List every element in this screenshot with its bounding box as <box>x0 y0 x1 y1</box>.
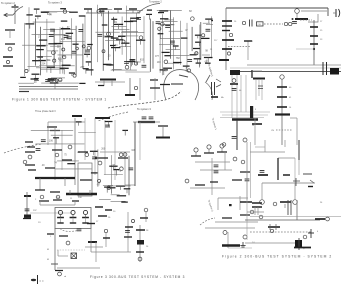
wire 113 <box>74 201 76 205</box>
wire 127 <box>57 250 59 256</box>
svg-text:Three phase fault 3: Three phase fault 3 <box>35 110 56 113</box>
svg-text:Figure 2 300-BUS TEST SYSTEM -: Figure 2 300-BUS TEST SYSTEM - SYSTEM 2 <box>222 255 332 259</box>
generator G 12 <box>223 231 227 235</box>
generator 27 <box>55 79 58 82</box>
stub wire 45 <box>78 122 80 126</box>
system boundary bubble 1 <box>164 70 199 100</box>
stub wire 32 <box>159 34 161 39</box>
svg-text:880: 880 <box>194 52 199 55</box>
generator G 7 <box>194 148 198 152</box>
wire 1 <box>14 7 16 24</box>
generator 26 <box>73 74 76 77</box>
bus bar 148 <box>191 155 201 157</box>
long feeder wire 2 <box>301 10 327 12</box>
bus bar 183 <box>219 59 229 61</box>
svg-text:267: 267 <box>80 66 85 69</box>
svg-text:173: 173 <box>137 11 142 14</box>
wire 107 <box>134 122 136 186</box>
bus bar 64 <box>130 59 136 61</box>
node dot 1 <box>14 4 16 6</box>
wire 172 <box>296 48 314 50</box>
generator 32 <box>55 153 59 157</box>
bus bar 143 <box>125 226 133 228</box>
wire 16 <box>59 27 61 74</box>
wire 97 <box>84 118 86 160</box>
bus bar 81 <box>194 58 201 60</box>
bus bar 171 <box>104 186 110 188</box>
wire 112 <box>40 204 75 206</box>
bus bar 196 <box>280 201 291 203</box>
wire 143 <box>190 187 225 189</box>
wire 6 <box>95 81 125 83</box>
long tie wire 2 <box>19 88 78 90</box>
feeder drop 2 <box>313 20 315 60</box>
generator 51 <box>243 138 247 142</box>
wire 136 <box>195 152 197 156</box>
svg-text:346: 346 <box>131 149 136 152</box>
bus bar 32 <box>39 39 47 41</box>
generator G 4 <box>58 272 62 276</box>
generator 8 <box>52 51 56 55</box>
bus bar 60 <box>111 18 117 20</box>
bus bar 50 <box>116 39 123 41</box>
generator 22 <box>187 69 190 72</box>
wire 24 <box>45 11 57 13</box>
svg-text:106: 106 <box>49 140 54 143</box>
transformer 13 <box>156 22 161 24</box>
transformer 36 <box>258 86 263 89</box>
bus bar 127 <box>57 217 64 219</box>
bus bar 59 <box>102 24 108 26</box>
wire 29 <box>28 65 40 67</box>
bus bar 93 <box>32 73 40 75</box>
wire 192 <box>278 157 295 159</box>
wire 15 <box>53 29 55 68</box>
wire 189 <box>294 158 296 183</box>
main bus 5 <box>222 244 240 246</box>
wire 152 <box>228 247 252 249</box>
wire 44 <box>121 17 123 55</box>
dashed wire 6 <box>250 231 312 233</box>
bus bar 92 <box>50 82 59 84</box>
generator 1 <box>8 47 12 51</box>
wire 12 <box>35 18 37 65</box>
bus bar 82 <box>159 10 168 12</box>
bus bar 96 <box>47 79 54 81</box>
svg-text:193: 193 <box>157 61 162 64</box>
transformer 3 <box>67 37 72 39</box>
bus bar 193 <box>308 186 313 188</box>
generator 12 <box>62 55 66 59</box>
transformer 37 <box>260 171 265 173</box>
bus bar 62 <box>147 9 152 11</box>
bus bar 34 <box>61 28 71 30</box>
bus bar 105 <box>50 130 60 132</box>
wire 131 <box>127 212 129 252</box>
wire 92 <box>48 121 85 123</box>
wire 87 <box>200 22 202 60</box>
wire 162 <box>104 174 123 176</box>
stub wire 15 <box>88 62 90 66</box>
stub wire 8 <box>29 24 31 29</box>
transformer 20 <box>142 117 147 119</box>
bus bar 126 <box>72 200 79 202</box>
wire 182 <box>254 118 256 145</box>
wire 28 <box>60 41 85 43</box>
bus bar 43 <box>60 67 69 69</box>
generator G 3 <box>83 210 87 214</box>
generator G 11 <box>241 160 245 164</box>
bus bar 53 <box>130 17 139 19</box>
bus bar 46 <box>32 60 39 62</box>
wire 151 <box>227 232 229 248</box>
wire 22 <box>90 8 92 75</box>
transformer 23 <box>77 229 82 231</box>
wire 21 <box>84 16 86 53</box>
generator 55 <box>326 217 330 221</box>
wire 168 <box>327 8 329 16</box>
wire 153 <box>78 132 96 134</box>
wire 145 <box>250 142 252 198</box>
bus bar 175 <box>310 35 318 37</box>
wire 11 <box>28 7 30 71</box>
transformer 21 <box>149 117 154 119</box>
bus bar 37 <box>37 56 43 58</box>
bus bar 188 <box>277 86 287 88</box>
wire 158 <box>51 134 73 136</box>
generator 19 <box>122 40 125 43</box>
wire 109 <box>162 126 164 137</box>
wire 77 <box>164 19 174 21</box>
bus bar 19 <box>47 66 55 68</box>
wire 201 <box>247 211 264 213</box>
wire 93 <box>47 122 49 145</box>
bus bar 116 <box>80 179 92 181</box>
long bus wire 4 <box>250 216 341 218</box>
wire 128 <box>58 255 68 257</box>
wire 47 <box>136 13 138 64</box>
bus bar 137 <box>55 270 63 272</box>
bus bar 88 <box>164 55 170 57</box>
generator 54 <box>259 215 263 219</box>
wire 75 <box>166 62 179 64</box>
bus bar 99 <box>201 37 210 39</box>
generator 24 <box>195 52 198 55</box>
bus bar 142 <box>103 237 110 239</box>
wire 76 <box>163 24 175 26</box>
svg-text:M: M <box>47 259 49 261</box>
wire 95 <box>61 130 63 170</box>
stub wire 28 <box>175 46 177 50</box>
bus bar 149 <box>204 152 214 154</box>
transformer 22 <box>25 209 30 211</box>
feeder drop 8 <box>281 79 283 145</box>
wire 181 <box>261 79 263 100</box>
transformer 18 <box>34 78 39 80</box>
generator 16 <box>102 50 105 53</box>
bus bar 79 <box>160 18 168 20</box>
wire 121 <box>85 215 87 218</box>
generator 14 <box>139 36 143 40</box>
device box 2 <box>257 22 264 26</box>
transformer 14 <box>187 60 192 62</box>
bus bar 5 <box>129 8 137 10</box>
bus bar 173 <box>295 18 308 20</box>
bus bar 166 <box>121 201 128 203</box>
wire 179 <box>255 79 257 100</box>
bus bar 8 <box>3 56 13 58</box>
svg-text:To system 3: To system 3 <box>137 107 151 111</box>
wire 110 <box>26 192 28 218</box>
bus bar 69 <box>118 35 126 37</box>
wire 120 <box>72 218 74 224</box>
bus bar 107 <box>27 146 35 148</box>
wire 99 <box>104 120 106 175</box>
bus bar 119 <box>118 157 128 159</box>
long feeder wire 1 <box>226 7 328 9</box>
generator 46 <box>107 186 111 190</box>
wire 149 <box>215 221 258 223</box>
wire 150 <box>205 227 255 229</box>
generator 35 <box>40 195 44 199</box>
bus bar 102 <box>72 115 82 117</box>
transformer 2 <box>78 30 83 32</box>
svg-text:768: 768 <box>176 57 181 60</box>
wire 94 <box>54 127 56 180</box>
bus bar 65 <box>101 8 108 10</box>
bus bar 153 <box>240 171 250 173</box>
bus bar 169 <box>109 165 117 167</box>
wire 122 <box>85 218 87 224</box>
bus bar 70 <box>105 36 113 38</box>
wire 200 <box>296 200 298 220</box>
bus bar 135 <box>88 241 97 243</box>
wire 17 <box>62 27 64 74</box>
bus bar 17 <box>160 84 170 86</box>
svg-text:260: 260 <box>101 147 106 150</box>
svg-text:Figure 1 300 BUS TEST SYSTEM -: Figure 1 300 BUS TEST SYSTEM - SYSTEM 1 <box>12 98 107 102</box>
wire 196 <box>257 207 259 215</box>
motor M 3 <box>289 22 292 25</box>
bus bar 45 <box>86 61 92 63</box>
wire 43 <box>113 17 115 72</box>
generator G 14 <box>295 9 300 14</box>
svg-text:To system 2: To system 2 <box>149 1 162 4</box>
bus bar 180 <box>222 39 234 41</box>
generator 44 <box>120 167 124 171</box>
long tie wire 1 <box>19 86 78 88</box>
stray mark 1 <box>31 279 36 281</box>
bus bar 179 <box>222 30 230 32</box>
wire 8 <box>139 78 141 100</box>
generator G 15 <box>280 75 284 79</box>
wire 183 <box>296 118 298 145</box>
bus bar 187 <box>253 78 265 80</box>
feeder drop 7 <box>236 120 238 150</box>
wire 177 <box>220 117 264 119</box>
bus bar 157 <box>240 214 250 216</box>
tick 3 <box>310 180 314 183</box>
bus bar 20 <box>69 72 75 74</box>
bus bar 151 <box>195 184 205 186</box>
feeder drop 5 <box>240 75 242 112</box>
wire 114 <box>30 212 72 214</box>
bus bar 16 <box>150 79 158 81</box>
double bar 1 <box>250 20 253 27</box>
wire 37 <box>32 34 66 36</box>
wire 50 <box>111 69 137 71</box>
arrow marks 1 <box>216 79 221 87</box>
wire 197 <box>284 204 286 208</box>
bus bar 191 <box>258 174 268 176</box>
generator 45 <box>97 179 100 182</box>
stub wire 48 <box>112 166 114 170</box>
wire 70 <box>191 27 193 51</box>
motor M 1 <box>242 21 245 24</box>
bus bar 140 <box>98 215 107 217</box>
svg-text:741: 741 <box>163 70 168 73</box>
transformer 4 <box>49 35 54 37</box>
bus bar 115 <box>45 167 55 169</box>
svg-text:To system 3: To system 3 <box>48 1 62 5</box>
stub wire 6 <box>71 73 73 76</box>
wire 80 <box>169 30 183 32</box>
wire 20 <box>82 24 84 69</box>
dashed tie to system 3 1 <box>108 91 181 108</box>
wire 130 <box>105 233 107 247</box>
dashed wire 2 <box>264 23 283 25</box>
stub wire 46 <box>120 186 122 190</box>
bus bar 78 <box>193 48 200 50</box>
bus bar 76 <box>163 67 172 69</box>
generator 49 <box>227 52 230 55</box>
wire 102 <box>64 178 66 186</box>
wire 159 <box>97 149 99 187</box>
generator 50 <box>232 79 236 83</box>
wire 42 <box>107 11 109 61</box>
wire 34 <box>39 65 74 67</box>
bus bar 114 <box>62 159 72 161</box>
wire 40 <box>97 5 99 62</box>
double bar 3 <box>212 82 215 95</box>
generator G 5 <box>144 208 148 212</box>
bus bar 23 <box>25 23 34 25</box>
stub wire 50 <box>106 187 108 193</box>
bus bar 68 <box>111 47 120 49</box>
bus bar 29 <box>60 8 66 10</box>
stub wire 21 <box>124 43 126 47</box>
top tie wire 1 <box>86 12 140 14</box>
bus bar 181 <box>244 40 252 42</box>
stub wire 26 <box>121 36 123 39</box>
wire 98 <box>94 118 96 175</box>
wire 137 <box>208 149 210 153</box>
wire 105 <box>125 184 135 186</box>
long bus wire 3 <box>230 71 341 73</box>
bus bar 15 <box>125 94 135 96</box>
generator 18 <box>125 65 129 69</box>
bus bar 185 <box>211 96 218 98</box>
stub wire 14 <box>37 16 39 19</box>
generator 30 <box>28 155 32 159</box>
bus bar 133 <box>47 233 54 235</box>
bus bar 58 <box>121 42 129 44</box>
bus bar 109 <box>25 164 35 166</box>
wire 64 <box>159 26 161 73</box>
station box 1 <box>78 163 92 196</box>
stub wire 9 <box>75 44 77 47</box>
stub wire 12 <box>85 69 87 74</box>
wire 175 <box>220 111 270 113</box>
generator 42 <box>123 153 127 157</box>
generator 53 <box>273 202 277 206</box>
bus bar 51 <box>146 13 152 15</box>
generator 29 <box>202 34 205 37</box>
svg-text:809: 809 <box>58 57 63 60</box>
transformer winding 1 <box>339 9 340 17</box>
transformer 31 <box>92 157 97 159</box>
bus bar 14 <box>98 85 104 87</box>
bus bar 145 <box>140 217 148 219</box>
stub wire 30 <box>199 63 201 67</box>
wire 134 <box>85 246 103 248</box>
wire 3 <box>54 83 56 89</box>
bus bar 174 <box>310 26 318 28</box>
bus bar 108 <box>25 151 35 153</box>
transformer 12 <box>136 18 141 20</box>
wire 82 <box>157 10 182 12</box>
wire 139 <box>195 161 230 163</box>
generator 37 <box>66 241 70 245</box>
bus bar 167 <box>116 185 125 187</box>
svg-text:**: ** <box>303 249 305 251</box>
generator 7 <box>76 47 79 50</box>
load T 1 <box>308 229 314 238</box>
bus bar 95 <box>31 78 39 80</box>
transformer 7 <box>85 50 90 52</box>
wire 188 <box>298 160 300 175</box>
wire 167 <box>99 198 111 200</box>
transformer bar 1 <box>335 9 337 17</box>
wire 187 <box>298 140 300 160</box>
wire 123 <box>60 229 78 232</box>
bus bar 122 <box>24 195 31 197</box>
bus bar 170 <box>124 188 131 190</box>
bus bar 130 <box>70 222 76 224</box>
bus bar 150 <box>217 151 227 153</box>
wire 36 <box>40 68 64 70</box>
wire 7 <box>129 78 131 95</box>
bus bar 57 <box>127 61 135 63</box>
wire 193 <box>261 183 263 199</box>
bus bar 86 <box>195 41 201 43</box>
generator 4 <box>63 10 66 13</box>
bus bar 110 <box>28 169 36 171</box>
bus bar 147 <box>136 251 144 253</box>
stub wire 25 <box>115 48 117 52</box>
stub wire 36 <box>35 74 37 79</box>
wire 101 <box>39 178 41 190</box>
stub wire 1 <box>87 9 89 13</box>
wire 30 <box>38 59 51 61</box>
bus bar 12 <box>19 91 29 93</box>
generator G 16 <box>260 200 265 205</box>
wire 119 <box>72 215 74 218</box>
bus bar 54 <box>103 63 112 65</box>
wire 194 <box>294 183 296 199</box>
wire 13 <box>40 27 42 76</box>
bus bar 195 <box>252 206 262 208</box>
